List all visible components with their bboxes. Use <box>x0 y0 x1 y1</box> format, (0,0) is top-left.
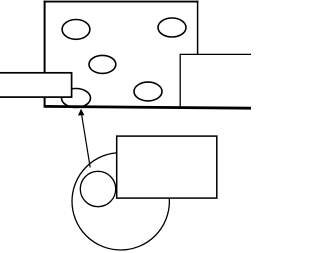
ellipse hole E1 top-left <box>62 20 90 40</box>
small circle (ball) <box>80 171 115 206</box>
left rectangle (cut off at left edge) <box>0 73 72 97</box>
main rectangle top edge <box>44 1 199 3</box>
ellipse hole E5 bottom-left (partly covered) <box>62 89 91 108</box>
main rectangle (top body) <box>45 2 198 107</box>
big circle (detail view) <box>72 153 169 250</box>
callout rectangle bottom-right <box>117 136 217 198</box>
main rectangle right edge <box>197 1 199 107</box>
ellipse hole E4 lower-right <box>134 82 162 101</box>
thick bottom baseline <box>44 106 251 108</box>
right rectangle fill (cut off at right edge) <box>180 54 255 107</box>
main rectangle left edge <box>44 1 46 107</box>
ellipse hole E3 middle <box>89 55 116 73</box>
right rectangle left edge <box>179 54 181 107</box>
arrow head <box>78 109 84 116</box>
ellipse hole E2 top-right <box>158 18 186 37</box>
right rectangle top edge <box>180 53 251 55</box>
arrow shaft <box>82 115 91 168</box>
